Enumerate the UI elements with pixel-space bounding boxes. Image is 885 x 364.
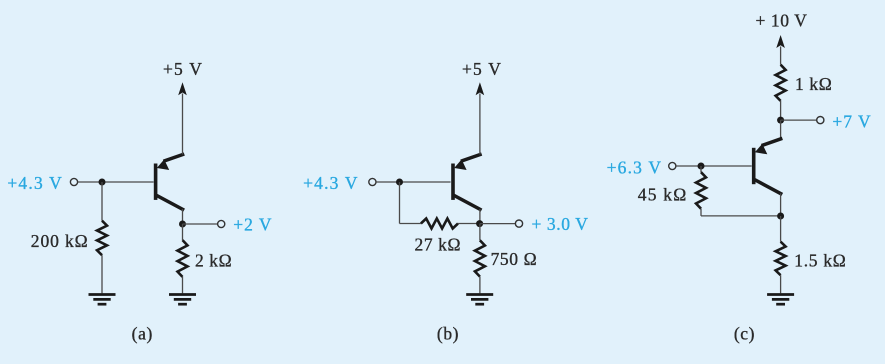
svg-text:+7 V: +7 V [832,111,871,131]
svg-text:+ 10 V: + 10 V [755,11,807,31]
svg-text:+6.3 V: +6.3 V [607,157,663,177]
supply arrow +5 V (a) [178,82,187,95]
wire collector node down to R7 [780,216,782,242]
svg-text:+5 V: +5 V [163,59,203,79]
wire collector node down to R2 [182,224,184,240]
wire base node to R6 [700,166,702,172]
terminal +4.3 V input (b) [369,178,376,185]
svg-text:(b): (b) [437,323,459,343]
svg-text:27 kΩ: 27 kΩ [414,234,461,254]
wire corner to R3 [400,223,421,225]
svg-text:1.5 kΩ: 1.5 kΩ [794,250,846,270]
wire R6 to collector node [701,215,781,217]
wire +10 V arrow to R5 [780,47,782,65]
svg-text:(a): (a) [132,323,153,343]
resistor R7 1.5 kOhm [776,242,786,276]
resistor R1 200 kOhm [97,221,107,256]
svg-text:2 kΩ: 2 kΩ [195,250,232,270]
svg-text:+4.3 V: +4.3 V [7,173,63,193]
wire emitter node down to Q3 [780,120,782,139]
wire emitter of Q1 to +5 V arrow [182,94,184,155]
ground (a) right [169,293,196,296]
wire R3 to collector node [458,223,480,225]
wire base node down [399,182,401,224]
wire base node down to R1 [101,182,103,221]
transistor Q2 (pnp) [451,155,480,210]
node emitter of Q3 (c) [777,117,784,124]
wire emitter node to +7 V terminal [781,119,817,121]
svg-text:(c): (c) [734,323,755,343]
wire base input to transistor Q3 [676,165,752,167]
ground (c) [767,293,794,296]
resistor R2 2 kOhm [178,240,188,277]
resistor R3 27 kOhm [421,219,458,229]
ground (a) left [89,293,116,296]
node base of Q2 (b) [396,179,403,186]
resistor R4 750 Ohm [475,240,485,276]
terminal +2 V output (a) [218,220,225,227]
wire R4 to ground [479,277,481,294]
transistor Q1 (pnp) [154,155,183,210]
wire collector of Q2 to output node [479,209,481,224]
svg-text:+5 V: +5 V [462,59,502,79]
svg-text:+4.3 V: +4.3 V [303,173,359,193]
wire collector of Q3 to node [780,193,782,216]
node collector of Q1 (a) [179,221,186,228]
node base of Q1 (a) [99,179,106,186]
wire R6 down [700,209,702,216]
terminal +6.3 V input (c) [669,162,676,169]
node collector of Q3 (c) [777,213,784,220]
wire R7 to ground [780,275,782,293]
resistor R6 45 kOhm [696,172,706,209]
resistor R5 1 kOhm [776,65,786,101]
wire R5 to emitter node [780,101,782,120]
transistor Q3 (pnp) [752,139,781,194]
supply arrow +5 V (b) [476,82,485,95]
wire collector node down to R4 [479,224,481,241]
wire emitter of Q2 to +5 V arrow [479,94,481,155]
wire R1 to ground [101,255,103,293]
wire base input to transistor Q1 [78,181,154,183]
svg-text:+2 V: +2 V [233,214,272,234]
ground (b) [466,293,493,296]
node collector of Q2 (b) [476,220,483,227]
wire collector node to +2 V terminal [183,223,218,225]
svg-text:1 kΩ: 1 kΩ [795,74,832,94]
svg-text:45 kΩ: 45 kΩ [638,184,688,204]
terminal +3.0 V output (b) [515,220,522,227]
terminal +4.3 V input (a) [70,178,77,185]
wire collector of Q1 to output node [182,209,184,224]
terminal +7 V output (c) [817,117,824,124]
svg-text:200 kΩ: 200 kΩ [31,231,89,251]
wire collector node to +3.0 V terminal [480,223,515,225]
svg-text:+ 3.0 V: + 3.0 V [531,214,588,234]
wire R2 to ground [182,277,184,293]
node base of Q3 (c) [698,163,705,170]
supply arrow +10 V (c) [776,35,785,48]
wire base input to transistor Q2 [376,181,450,183]
svg-text:750 Ω: 750 Ω [491,249,538,269]
